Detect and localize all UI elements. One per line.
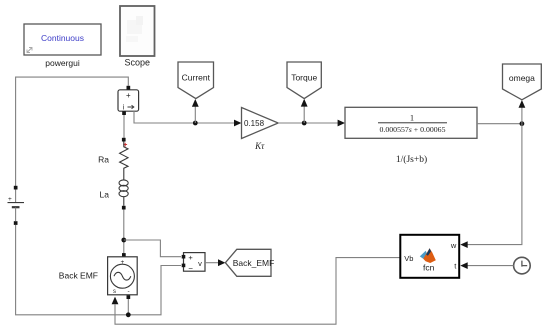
- svg-text:fcn: fcn: [423, 262, 435, 272]
- node junction bottom rail: [126, 312, 131, 317]
- svg-text:v: v: [198, 259, 202, 268]
- svg-text:-: -: [128, 288, 130, 295]
- svg-text:Torque: Torque: [291, 72, 317, 82]
- arrowhead into transfer fcn: [338, 120, 345, 127]
- svg-text:Back_EMF: Back_EMF: [233, 258, 275, 268]
- scope block: [120, 6, 155, 67]
- svg-text:1: 1: [410, 113, 414, 123]
- wire VM output to Back_EMF tag: [205, 262, 219, 264]
- svg-text:Current: Current: [182, 72, 211, 82]
- node junction above back emf: [121, 238, 126, 243]
- arrowhead signal into back emf: [112, 297, 119, 305]
- wire CM bottom to branch top: [123, 115, 125, 138]
- node junction omega: [520, 121, 525, 126]
- svg-text:+: +: [8, 196, 12, 203]
- inductor La: [100, 180, 129, 210]
- svg-text:La: La: [100, 189, 110, 199]
- goto tag omega: [503, 64, 542, 100]
- svg-text:+: +: [121, 259, 125, 266]
- clock block: [514, 257, 531, 274]
- node junction current tag: [193, 121, 198, 126]
- svg-text:Back EMF: Back EMF: [59, 271, 98, 281]
- svg-text:Continuous: Continuous: [41, 33, 84, 43]
- wire fcn Vb output to back emf signal input: [115, 258, 400, 325]
- svg-text:w: w: [450, 241, 457, 250]
- svg-text:s: s: [113, 289, 116, 295]
- svg-text:Kτ: Kτ: [254, 141, 265, 151]
- svg-text:Vb: Vb: [404, 254, 413, 263]
- matlab function block fcn: [400, 235, 459, 278]
- wire clock to fcn t input: [467, 265, 514, 267]
- battery DC source: [8, 186, 25, 225]
- svg-text:Ra: Ra: [98, 154, 109, 164]
- transfer function block 1/(Js+b): [345, 107, 477, 165]
- wire battery top loop to current measurement: [16, 77, 129, 186]
- matlab logo: [420, 251, 428, 259]
- svg-text:0.158: 0.158: [244, 119, 265, 128]
- wire branch bottom to back emf top: [123, 210, 125, 254]
- svg-text:+: +: [126, 91, 131, 100]
- voltage measurement block: [182, 253, 205, 273]
- back emf controlled voltage source: [59, 253, 137, 299]
- svg-text:−: −: [188, 264, 193, 273]
- gain K tau 0.158: [242, 108, 279, 151]
- goto tag Current: [178, 62, 214, 99]
- wire omega junction down to fcn w input: [467, 124, 522, 245]
- svg-text:+: +: [188, 253, 193, 262]
- wire current tag branch: [194, 107, 196, 124]
- arrowhead into gain: [234, 120, 241, 127]
- svg-text:0.000557s + 0.00065: 0.000557s + 0.00065: [380, 125, 446, 134]
- powergui block: [24, 24, 101, 68]
- svg-text:powergui: powergui: [45, 58, 80, 68]
- wire gain to transfer fcn: [278, 122, 338, 124]
- wire torque tag branch: [303, 106, 305, 123]
- svg-text:omega: omega: [509, 73, 535, 83]
- from tag Back_EMF: [225, 249, 274, 276]
- current measurement block I: [118, 86, 139, 115]
- wire battery bottom to bottom rail and VM minus: [16, 225, 181, 315]
- resistor Ra branch: [98, 138, 128, 180]
- wire CM i output down and right to gain: [134, 111, 236, 123]
- wire back emf bottom to rail: [127, 299, 129, 315]
- svg-text:1/(Js+b): 1/(Js+b): [396, 154, 427, 165]
- svg-text:Scope: Scope: [125, 57, 151, 67]
- wire omega tag branch: [521, 108, 523, 124]
- node junction torque tag: [302, 121, 307, 126]
- wire junction to VM plus input: [124, 240, 181, 257]
- wire TF output to omega junction: [477, 123, 522, 125]
- goto tag Torque: [287, 62, 321, 99]
